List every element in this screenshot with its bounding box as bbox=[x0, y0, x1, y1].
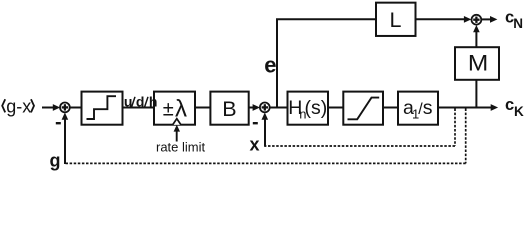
svg-text:N: N bbox=[513, 16, 523, 31]
wire g feedback up into S1 with arrow bbox=[62, 113, 69, 165]
node e branch wire up and across to L bbox=[277, 19, 376, 107]
node label cN bbox=[505, 9, 523, 31]
node label cK bbox=[505, 96, 524, 119]
minus sign at S1 bbox=[56, 122, 61, 124]
wire rate limiter to B bbox=[195, 107, 210, 109]
quantizer block bbox=[82, 92, 123, 125]
svg-text:e: e bbox=[264, 53, 276, 78]
node label u/d/h bbox=[124, 94, 158, 110]
wire M to S3 with arrow bbox=[473, 25, 480, 47]
wire L to summer S3 with arrow bbox=[416, 16, 472, 23]
block L bbox=[376, 3, 416, 36]
svg-text:L: L bbox=[390, 8, 402, 32]
minus sign at S2 bbox=[253, 122, 258, 124]
svg-text:±: ± bbox=[163, 98, 174, 120]
wire saturation to a1/s bbox=[383, 107, 398, 109]
svg-text:c: c bbox=[505, 96, 514, 114]
saturation block bbox=[343, 92, 383, 125]
dashed feedback x horizontal bbox=[265, 145, 455, 147]
svg-text:g: g bbox=[50, 151, 61, 171]
dashed feedback tap g vertical bbox=[465, 109, 467, 164]
svg-text:x: x bbox=[250, 134, 260, 154]
svg-text:K: K bbox=[514, 104, 524, 119]
block B bbox=[210, 92, 248, 125]
svg-text:g-x: g-x bbox=[6, 96, 31, 116]
wire main line tap up to M bbox=[475, 80, 477, 108]
svg-text:d: d bbox=[136, 94, 145, 110]
svg-text:u: u bbox=[124, 94, 133, 110]
rate limit input arrow bbox=[174, 125, 180, 142]
svg-text:M: M bbox=[468, 51, 488, 76]
wire input arrow into summer S1 bbox=[42, 104, 60, 111]
wire a1/s to output cK with arrow bbox=[438, 104, 498, 111]
wire Hn(s) to saturation bbox=[328, 107, 343, 109]
summing junction S1 bbox=[60, 103, 70, 113]
node input label g-x left angle bracket bbox=[2, 99, 5, 112]
svg-text:/s: /s bbox=[418, 97, 432, 119]
svg-text:rate limit: rate limit bbox=[156, 140, 206, 155]
svg-text:B: B bbox=[222, 97, 236, 121]
quantizer staircase symbol bbox=[87, 96, 117, 119]
block a1/s bbox=[398, 92, 438, 125]
dashed feedback tap x vertical bbox=[454, 109, 456, 147]
wire x feedback up into S2 with arrow bbox=[262, 113, 269, 147]
wire S2 to Hn(s) bbox=[270, 107, 288, 109]
svg-text:(s): (s) bbox=[305, 97, 328, 119]
summing junction S3 bbox=[472, 15, 482, 25]
summing junction S2 bbox=[260, 103, 270, 113]
block Hn(s) bbox=[288, 92, 329, 125]
wire quantizer to rate limiter bbox=[123, 107, 155, 109]
wire S1 to quantizer bbox=[70, 107, 82, 109]
rate limiter block plus-minus lambda bbox=[154, 92, 195, 125]
dashed feedback g horizontal bbox=[65, 162, 466, 164]
wire B to summer S2 with arrow bbox=[249, 104, 260, 111]
wire S3 to output cN with arrow bbox=[482, 16, 498, 23]
node input label g-x right angle bracket bbox=[31, 99, 34, 112]
block M bbox=[455, 47, 499, 80]
